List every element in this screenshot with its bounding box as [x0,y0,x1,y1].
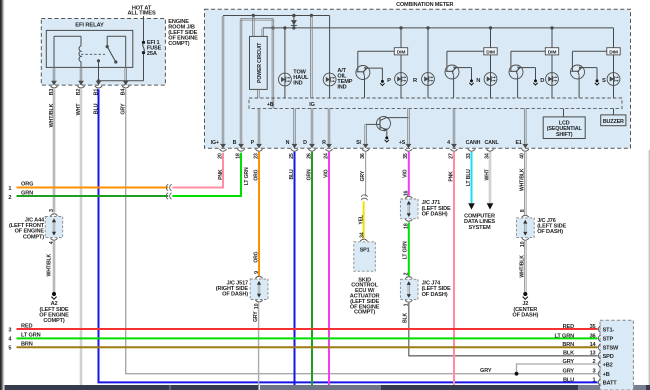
svg-text:GRY: GRY [480,368,492,374]
svg-text:ST1-: ST1- [603,327,615,333]
svg-text:B2: B2 [76,89,82,96]
connector splice wire 1 [166,184,168,190]
pin B3 [51,81,57,85]
svg-text:PNK: PNK [449,171,455,182]
ground J2 [523,292,527,296]
svg-text:VIO: VIO [403,169,409,178]
svg-text:S: S [602,78,606,84]
svg-text:2: 2 [593,359,596,365]
svg-text:DIM: DIM [548,49,557,55]
svg-text:BUZZER: BUZZER [603,119,624,125]
ground point Q5 emitter [385,136,388,139]
ECU SP1 skid control [354,242,376,271]
svg-text:2: 2 [8,195,11,201]
svg-text:3: 3 [593,369,596,375]
wire SI riser [364,124,366,143]
bus +B / IG dashed rail [249,98,622,108]
pin B4 [123,81,129,85]
svg-text:N: N [286,140,290,146]
svg-text:SI: SI [356,140,361,146]
relay outline [46,30,133,67]
svg-text:25A: 25A [147,51,157,57]
svg-text:IG: IG [309,102,314,108]
wire WHT/BLK to J2 [524,240,526,292]
svg-text:34: 34 [359,232,365,238]
svg-text:GRY: GRY [563,369,575,375]
svg-text:BLK: BLK [403,313,409,323]
svg-text:CANL: CANL [484,140,499,146]
transistor Q-N [447,50,484,52]
svg-text:OF DASH): OF DASH) [222,292,248,298]
svg-text:1: 1 [593,377,596,383]
svg-text:LT BLU: LT BLU [466,169,472,186]
wire WHT CANL [488,152,490,203]
svg-text:36: 36 [590,333,596,339]
node GRY junction [515,372,519,376]
svg-text:E1: E1 [516,140,522,146]
wire BLK from J74 [409,303,598,356]
LED A/T oil temp ind [329,16,331,99]
wire BLU from N [294,152,296,385]
wire B pin riser [239,19,241,144]
LED P [400,55,402,98]
wire VIO from R [328,152,330,385]
svg-text:GRY: GRY [360,170,366,181]
wire P riser [257,108,259,144]
svg-text:8: 8 [520,209,526,212]
arrow to data lines CANH [468,203,475,209]
svg-text:P: P [387,78,391,84]
engine room J/B dashed box [41,19,165,86]
ground point D emitter [534,79,537,82]
svg-text:OF DASH): OF DASH) [512,312,538,318]
svg-text:2: 2 [404,272,410,275]
svg-text:+S: +S [399,140,406,146]
svg-text:WHT/BLK: WHT/BLK [46,254,52,277]
wire WHT/BLK from B3 [52,89,54,212]
wire GRY from B4 [126,89,598,373]
svg-text:COMPT): COMPT) [168,41,189,47]
ground point P emitter [381,80,384,83]
buzzer [613,109,615,115]
wire GRY +B2 branch [517,364,598,374]
LED R [427,28,429,98]
svg-text:14: 14 [590,342,597,348]
svg-text:RED: RED [563,324,574,330]
svg-text:D: D [540,78,544,84]
fuse EFI 1 FUSE 25A [142,41,145,44]
svg-text:OF DASH): OF DASH) [537,229,563,235]
wire GRY from SI [365,152,367,197]
DIM box above P [400,28,402,48]
svg-text:9: 9 [254,271,260,274]
connector block (shift ECU) [600,320,633,390]
svg-text:+B: +B [603,372,610,378]
node relay common [97,59,100,62]
LED tow haul ind [284,28,286,98]
svg-text:1: 1 [8,186,11,192]
svg-text:VIO: VIO [324,169,330,178]
svg-text:3: 3 [49,209,55,212]
relay coil circuit wires [54,35,81,37]
svg-text:ALL TIMES: ALL TIMES [127,11,155,17]
combination meter dashed box [205,9,631,148]
DIM box above D [551,28,553,48]
svg-text:LT GRN: LT GRN [244,167,250,185]
svg-text:R: R [322,140,326,146]
wire VIO from +S [408,152,410,196]
svg-text:OF DASH): OF DASH) [422,211,448,217]
svg-text:DIM: DIM [609,49,618,55]
svg-text:LT GRN: LT GRN [554,333,574,339]
LED D [551,55,553,98]
wire WHT/BLK to A2 [52,240,54,292]
LCD (sequential shift) [563,109,565,117]
svg-text:COMPT): COMPT) [23,234,44,240]
svg-text:EFI RELAY: EFI RELAY [75,22,104,28]
svg-text:4: 4 [49,241,55,244]
arrow to data lines CANL [487,203,494,209]
svg-text:GRY: GRY [563,359,575,365]
svg-text:GRN: GRN [307,169,313,180]
svg-text:D: D [303,140,307,146]
wire IG drop [310,16,312,98]
wire GRY below J517 [258,302,260,385]
DIM box above N [490,28,492,48]
svg-text:BLU: BLU [289,169,295,179]
wire WHT/BLK from E1 [524,152,526,215]
wire PNK to IG+ [172,153,223,188]
LED S [613,55,615,98]
svg-text:BLU: BLU [563,377,574,383]
wire +S riser [407,108,409,144]
svg-text:10: 10 [520,241,526,247]
svg-text:B3: B3 [49,89,55,96]
ground A2 [52,292,56,296]
svg-text:ORG: ORG [254,251,260,262]
relay switch circuit [107,35,126,37]
transistor Q-S [572,50,606,52]
svg-text:BATT: BATT [603,381,618,387]
svg-text:16: 16 [404,190,410,196]
power circuit U1 [252,16,254,36]
svg-text:PNK: PNK [218,169,224,180]
pin B1 [96,81,102,85]
svg-text:LT GRN: LT GRN [403,241,409,259]
svg-text:3: 3 [8,327,11,333]
svg-text:STP: STP [603,337,614,343]
wire D riser [310,108,312,144]
wire fuse to B1 node [99,80,144,82]
svg-text:WHT: WHT [485,168,491,180]
svg-text:YEL: YEL [359,215,365,224]
wire pin4 riser [452,108,454,144]
svg-text:BLK: BLK [563,351,574,357]
DIM box above S [613,28,615,48]
svg-text:POWER CIRCUIT: POWER CIRCUIT [257,42,263,83]
svg-text:SPD: SPD [603,354,614,360]
LED N [490,55,492,98]
pin B2 [78,81,84,85]
ground point S emitter [596,79,599,82]
wire E1 riser [524,108,526,144]
wire B1 internal [98,61,100,85]
wire BLU from B1 (BATT) [99,89,598,382]
svg-text:IG+: IG+ [211,140,219,146]
svg-text:13: 13 [590,351,596,357]
relay switch blade [107,47,116,62]
svg-text:SP1: SP1 [360,247,370,253]
svg-text:+B2: +B2 [603,362,613,368]
transistor Q-D [511,50,545,52]
relay coil L1 [79,46,81,62]
svg-text:IND: IND [293,81,302,87]
svg-text:COMPT): COMPT) [43,318,64,324]
wire YEL to skid control [363,201,365,239]
svg-text:WHT/BLK: WHT/BLK [520,255,526,278]
svg-text:STSW: STSW [603,346,619,352]
bus IG feed (top) [223,15,330,17]
svg-text:+B: +B [267,102,274,108]
bus +B (second) [263,27,614,29]
relay actuation dashed link [81,53,105,55]
svg-text:OF DASH): OF DASH) [422,292,448,298]
svg-text:DIM: DIM [486,49,495,55]
transistor Q5 (SI driver) [377,117,391,131]
svg-text:IND: IND [337,84,346,90]
wire LT GRN to B [172,153,241,196]
svg-text:5: 5 [8,346,11,352]
wire LT GRN J71 to J74 [408,222,410,276]
svg-text:CANH: CANH [466,140,481,146]
svg-text:COMPT): COMPT) [354,310,375,316]
wire IG+ riser [221,16,223,144]
svg-text:SHIFT): SHIFT) [556,132,573,138]
connector splice SI wire [361,195,367,197]
svg-text:B: B [233,140,237,146]
wire from HOT AT ALL TIMES [143,16,145,41]
svg-text:N: N [476,78,480,84]
wire R riser [327,108,329,144]
wire LT BLU CANH [471,152,473,203]
svg-text:4: 4 [447,140,450,146]
svg-text:SYSTEM: SYSTEM [468,225,491,231]
svg-text:35: 35 [590,324,596,330]
svg-text:WHT/BLK: WHT/BLK [49,103,55,127]
ground point N emitter [470,79,473,82]
svg-text:WHT: WHT [76,103,82,116]
svg-text:DIM: DIM [397,49,406,55]
svg-text:BRN: BRN [562,342,574,348]
diode D1 [293,16,295,28]
wire GRN from D [311,152,313,385]
transistor Q-P [358,50,395,52]
right window edge [648,150,650,385]
wire WHT from B2 [79,89,81,385]
wire N riser [293,108,295,144]
wire PNK from pin 4 [453,152,455,385]
connector splice wire 2 [166,193,168,199]
wire ORG from P [258,152,260,276]
svg-text:ORG: ORG [254,169,260,180]
svg-text:WHT/BLK: WHT/BLK [520,168,526,191]
bottom scrollbar [0,385,650,390]
svg-text:COMBINATION METER: COMBINATION METER [396,2,453,8]
svg-text:GRY: GRY [253,311,259,322]
